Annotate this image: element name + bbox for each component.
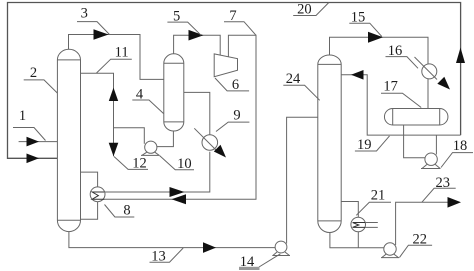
svg-text:13: 13: [151, 248, 166, 264]
pipe: pump 14 discharge to column 24 feed: [287, 117, 318, 243]
leader label 3: [77, 22, 110, 35]
leader label 17: [381, 93, 421, 107]
pipe: drum 17 bottom to pump 18: [404, 125, 425, 158]
svg-text:12: 12: [132, 155, 147, 171]
svg-text:11: 11: [115, 45, 129, 61]
pipe 13: column 2 bottoms to pump 14: [69, 232, 275, 248]
svg-text:14: 14: [240, 254, 255, 270]
pipe: pump 18 discharge: [435, 135, 437, 154]
arrow product 23: [448, 197, 462, 208]
leader label 20: [293, 3, 329, 16]
exchanger 21: [351, 217, 366, 232]
pipe: column 4 bottoms to pump 10: [157, 131, 174, 147]
arrow on pipe 13: [203, 242, 216, 253]
exchanger 21 stub lines: [365, 223, 378, 228]
leader label 7: [224, 22, 256, 36]
svg-text:4: 4: [136, 87, 144, 103]
exchanger 9: [202, 135, 218, 151]
svg-text:15: 15: [351, 9, 366, 25]
pump 14: [275, 241, 287, 253]
svg-text:10: 10: [177, 156, 192, 172]
svg-text:20: 20: [297, 2, 312, 18]
pipe: condenser 16 to drum 17: [427, 79, 429, 109]
leader label 2: [24, 80, 58, 93]
svg-text:18: 18: [453, 138, 468, 154]
svg-text:17: 17: [383, 79, 398, 95]
leader label 23: [422, 188, 456, 202]
column 24: [318, 55, 341, 233]
leader label 12: [114, 157, 148, 170]
leader label 10: [160, 156, 195, 170]
pump 18: [425, 153, 437, 165]
svg-text:5: 5: [173, 8, 180, 24]
exchanger 8: [90, 187, 105, 202]
compressor 6: [214, 54, 237, 77]
leader label 24: [283, 85, 319, 100]
exchanger 16: [422, 64, 437, 79]
leader label 4: [132, 100, 163, 114]
pipe 3: column 2 overhead to column 4 feed: [69, 35, 164, 80]
leader label 19: [355, 136, 390, 151]
svg-text:22: 22: [413, 232, 428, 248]
reboiler 21 loop on column 24: [341, 202, 358, 218]
pipe 19 reflux line from pump 18 to column 24: [341, 75, 460, 135]
svg-text:1: 1: [19, 108, 26, 124]
pipe: column 24 bottoms to pump 22: [330, 233, 384, 248]
arrow on pipe 5: [189, 30, 204, 41]
pipe 15: column 24 overhead to condenser 16: [330, 37, 429, 64]
svg-text:6: 6: [232, 77, 239, 93]
leader label 22: [400, 245, 433, 257]
pipe 11: return line into column 2 with branch 12: [81, 73, 114, 156]
arrow down on branch 12: [109, 143, 119, 157]
sigma in exchanger 8: [92, 192, 104, 199]
leader label 11: [97, 59, 132, 73]
pump 10: [145, 141, 157, 153]
leader label 6: [215, 78, 249, 91]
pump 22: [384, 243, 396, 255]
arrow right on exchanger 8 outlet: [170, 187, 185, 197]
leader label 5: [167, 22, 201, 35]
svg-text:7: 7: [229, 8, 236, 24]
svg-text:21: 21: [371, 188, 386, 204]
pipe 7: compressor 6 outlet to exchanger 8: [103, 35, 256, 199]
arrow on pipe 3: [94, 29, 109, 40]
leader label 1: [13, 128, 46, 141]
svg-text:9: 9: [233, 108, 240, 124]
leader label 8: [105, 205, 135, 218]
pipe 23: pump 22 to product arrow: [396, 202, 448, 245]
arrow up on pipe 11: [109, 88, 118, 101]
sigma in exchanger 21: [353, 223, 365, 228]
column 2: [57, 49, 80, 231]
svg-text:24: 24: [286, 71, 301, 87]
svg-text:19: 19: [357, 137, 372, 153]
svg-text:23: 23: [436, 175, 451, 191]
arrow into column 24 (reflux): [351, 70, 364, 80]
arrow into column 2 (pipe 20): [27, 154, 40, 164]
arrow left on pipe 7: [172, 194, 187, 204]
leader label 15: [349, 23, 382, 36]
pipe 20 recycle: up right side, across top, down left side, into column 2: [8, 3, 461, 159]
pipe: exchanger 8 outlet up through exchanger 9 into column 4: [105, 152, 210, 192]
leader label 9: [216, 122, 249, 131]
svg-text:8: 8: [123, 203, 130, 219]
pipe: pump 10 discharge to pipe 11: [114, 128, 145, 144]
arrow on pipe 15: [368, 32, 383, 43]
pipe 1: feed into column 2: [19, 141, 58, 143]
column 4: [164, 54, 184, 131]
reboiler 8 loop on column 2: [81, 172, 98, 187]
drum 17: [384, 109, 448, 126]
svg-text:3: 3: [81, 6, 88, 22]
pipe 5: column 4 overhead to compressor 6: [174, 35, 221, 55]
leader label 13: [150, 248, 184, 262]
arrow up on pipe 20 right riser: [456, 48, 465, 64]
leader label 21: [356, 202, 391, 215]
leader label 18: [441, 153, 473, 168]
arrow on pipe 1: [27, 137, 40, 147]
leader label 16: [386, 57, 419, 69]
svg-text:2: 2: [30, 65, 37, 81]
svg-text:16: 16: [388, 43, 403, 59]
leader label 14: [259, 254, 280, 267]
